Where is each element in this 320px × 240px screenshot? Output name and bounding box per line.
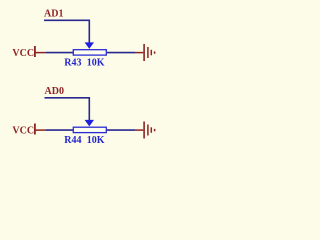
power port VCC (top) (12, 46, 46, 59)
ground (bottom) (135, 122, 155, 139)
ground (top) (135, 44, 155, 61)
wire AD0 net: horizontal then down to wiper (45, 98, 90, 121)
wire R44 right pin to ground (107, 129, 135, 131)
svg-text:VCC: VCC (12, 125, 34, 136)
svg-text:AD0: AD0 (45, 86, 64, 97)
svg-text:AD1: AD1 (44, 9, 63, 20)
resistor R43 potentiometer (64, 42, 106, 68)
net label AD1 (44, 9, 63, 20)
wire R43 right pin to ground (107, 52, 135, 54)
wire AD1 net: horizontal then down to wiper (44, 20, 89, 43)
svg-text:VCC: VCC (12, 48, 34, 59)
resistor R44 potentiometer (64, 120, 106, 146)
svg-text:R44: R44 (64, 135, 81, 146)
svg-text:R43: R43 (64, 58, 81, 69)
wire VCC to R43 left pin (46, 52, 73, 54)
svg-text:10K: 10K (87, 58, 105, 69)
net label AD0 (45, 86, 64, 97)
svg-text:10K: 10K (87, 135, 105, 146)
sheet background (0, 0, 183, 151)
power port VCC (bottom) (12, 124, 46, 137)
wire VCC to R44 left pin (46, 129, 73, 131)
